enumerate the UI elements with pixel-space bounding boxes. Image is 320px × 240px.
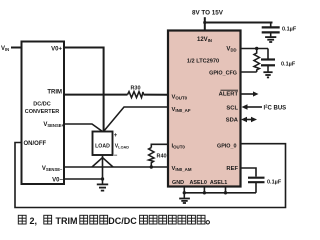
capacitor C3 0.1uF [248,178,282,193]
wire load+ to VIN0_A [104,107,169,132]
wire TRIM to R30 [64,94,128,96]
wire SDA bidirectional arrow [241,117,257,123]
resistor R1 VDD to GPIO_CFG [254,49,259,73]
svg-text:ASEL0: ASEL0 [190,180,207,186]
svg-text:ASEL1: ASEL1 [210,180,227,186]
wire VDD [241,48,269,50]
svg-text:VSENSE+: VSENSE+ [43,122,64,128]
svg-text:DC/DC: DC/DC [108,216,137,226]
wire VO- [64,178,103,180]
wire ON/OFF to GPIO_0 loop [15,143,286,208]
svg-text:−: − [114,153,118,159]
svg-text:I2C BUS: I2C BUS [264,103,287,111]
svg-text:ALERT: ALERT [219,91,239,97]
wire GND stub [183,187,185,193]
svg-text:TRIM: TRIM [47,90,62,96]
wire ASEL0 stub [203,187,205,193]
wire ALERT arrow out [241,91,259,96]
svg-text:REF: REF [226,166,238,172]
capacitor C2 0.1uF [261,49,296,72]
junction GND [183,191,186,194]
svg-text:ON/OFF: ON/OFF [24,141,47,147]
wire VSENSE- diagonals to load- [92,158,113,168]
svg-text:0.1µF: 0.1µF [282,27,297,33]
caption figure 2 [18,215,26,224]
junction ASEL0 [203,191,206,194]
wire VSENSE+ [64,124,103,132]
svg-text:2,: 2, [30,216,38,226]
svg-text:8V TO 15V: 8V TO 15V [192,9,224,16]
svg-text:R40: R40 [157,154,167,160]
ground below C1 [265,32,276,42]
load box [93,132,130,160]
svg-text:VLOAD: VLOAD [115,143,129,149]
svg-text:VDD: VDD [226,47,236,53]
ground below load [97,179,108,191]
svg-text:VIN0_AF: VIN0_AF [172,107,191,113]
ground below GND pin [179,193,190,203]
svg-text:VIN0_AM: VIN0_AM [172,166,192,172]
svg-text:TRIM: TRIM [56,216,78,226]
svg-text:CONVERTER: CONVERTER [25,109,60,115]
resistor R30 [128,85,144,97]
svg-text:1/2 LTC2970: 1/2 LTC2970 [187,59,219,65]
svg-text:0.1µF: 0.1µF [267,180,282,186]
svg-text:V0−: V0− [52,177,63,183]
wire 12VIN vertical [204,17,206,30]
wire load bottom to VO- [102,155,104,179]
wire VIN stub [11,47,22,49]
wire SCL arrow in [242,104,263,110]
node 8V TO 15V supply [192,9,224,16]
svg-text:V0+: V0+ [51,47,62,53]
wire GND/ASEL bottom rail [184,192,256,194]
junction R40/VIN0_AM [150,165,153,168]
svg-text:GPIO_0: GPIO_0 [217,144,236,150]
svg-text:VIN: VIN [1,46,9,52]
node VIN label [1,46,9,52]
junction ASEL1 [224,191,227,194]
op-amp U1 LTC2970 body [168,31,241,187]
svg-text:R30: R30 [130,85,140,91]
node I2C BUS label [264,103,287,111]
svg-text:+: + [114,133,118,139]
wire VO+ to load [64,48,104,132]
wire IOUT0 to R40 [151,144,168,147]
svg-text:IOUT0: IOUT0 [172,144,186,150]
wire ASEL1 stub [225,187,227,193]
svg-text:0.1µF: 0.1µF [281,62,296,68]
capacitor C1 0.1uF [262,23,297,33]
svg-text:VSENSE−: VSENSE− [42,166,63,172]
resistor R40 [149,148,167,167]
svg-text:GPIO_CFG: GPIO_CFG [209,71,237,77]
svg-text:GND: GND [172,180,184,186]
wire R30 to VOUT0 pin [144,94,169,96]
svg-text:LOAD: LOAD [95,143,110,149]
svg-text:SDA: SDA [226,118,239,124]
wire REF [241,168,257,177]
wire VSENSE- to VIN0_AM [64,166,168,168]
wire GPIO_CFG [241,71,257,73]
wire top rail to C1 [205,22,273,24]
ground below C2 [263,72,272,77]
svg-text:SCL: SCL [226,106,238,112]
junction VO-/load [101,177,104,180]
DC/DC converter box [22,42,65,185]
svg-text:VOUT0: VOUT0 [172,95,188,101]
junction VDD node [255,47,258,50]
svg-text:12VIN: 12VIN [197,37,212,43]
svg-text:DC/DC: DC/DC [33,102,50,108]
